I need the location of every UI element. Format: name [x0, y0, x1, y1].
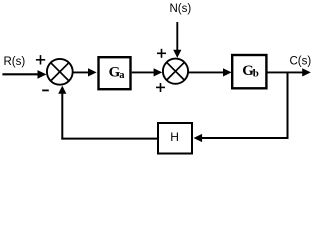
wire feedback up into summer S1 — [58, 86, 66, 140]
node N(s) — [170, 3, 192, 15]
svg-text:N(s): N(s) — [170, 3, 192, 15]
wire block Ga to summer S2 — [132, 68, 163, 76]
plus sign at summer S2 upper input — [157, 49, 166, 58]
wire takeoff point down from output — [287, 72, 289, 138]
wire block H to lower left corner — [61, 138, 157, 140]
wire summer S2 to block Gb — [189, 68, 232, 76]
plus sign at summer S1 input — [36, 55, 45, 64]
minus sign at summer S1 feedback input — [42, 89, 49, 91]
node C(s) — [290, 56, 312, 68]
svg-text:a: a — [119, 70, 125, 81]
block Gb — [232, 55, 266, 88]
wire block Gb to output C(s) — [268, 68, 311, 76]
wire bottom right to block H — [194, 134, 289, 142]
wire input R(s) to summer S1 — [2, 70, 46, 79]
svg-text:R(s): R(s) — [4, 56, 26, 68]
node R(s) — [4, 56, 26, 68]
summing junction S2 — [163, 59, 188, 84]
block H — [158, 123, 192, 154]
wire N(s) to summer S2 — [173, 22, 181, 58]
svg-text:b: b — [253, 68, 259, 80]
plus sign at summer S2 lower input — [156, 83, 165, 92]
block Ga — [99, 57, 131, 89]
wire summer S1 to block Ga — [73, 68, 97, 76]
svg-text:C(s): C(s) — [290, 56, 312, 68]
svg-text:H: H — [170, 130, 179, 144]
summing junction S1 — [47, 59, 73, 85]
